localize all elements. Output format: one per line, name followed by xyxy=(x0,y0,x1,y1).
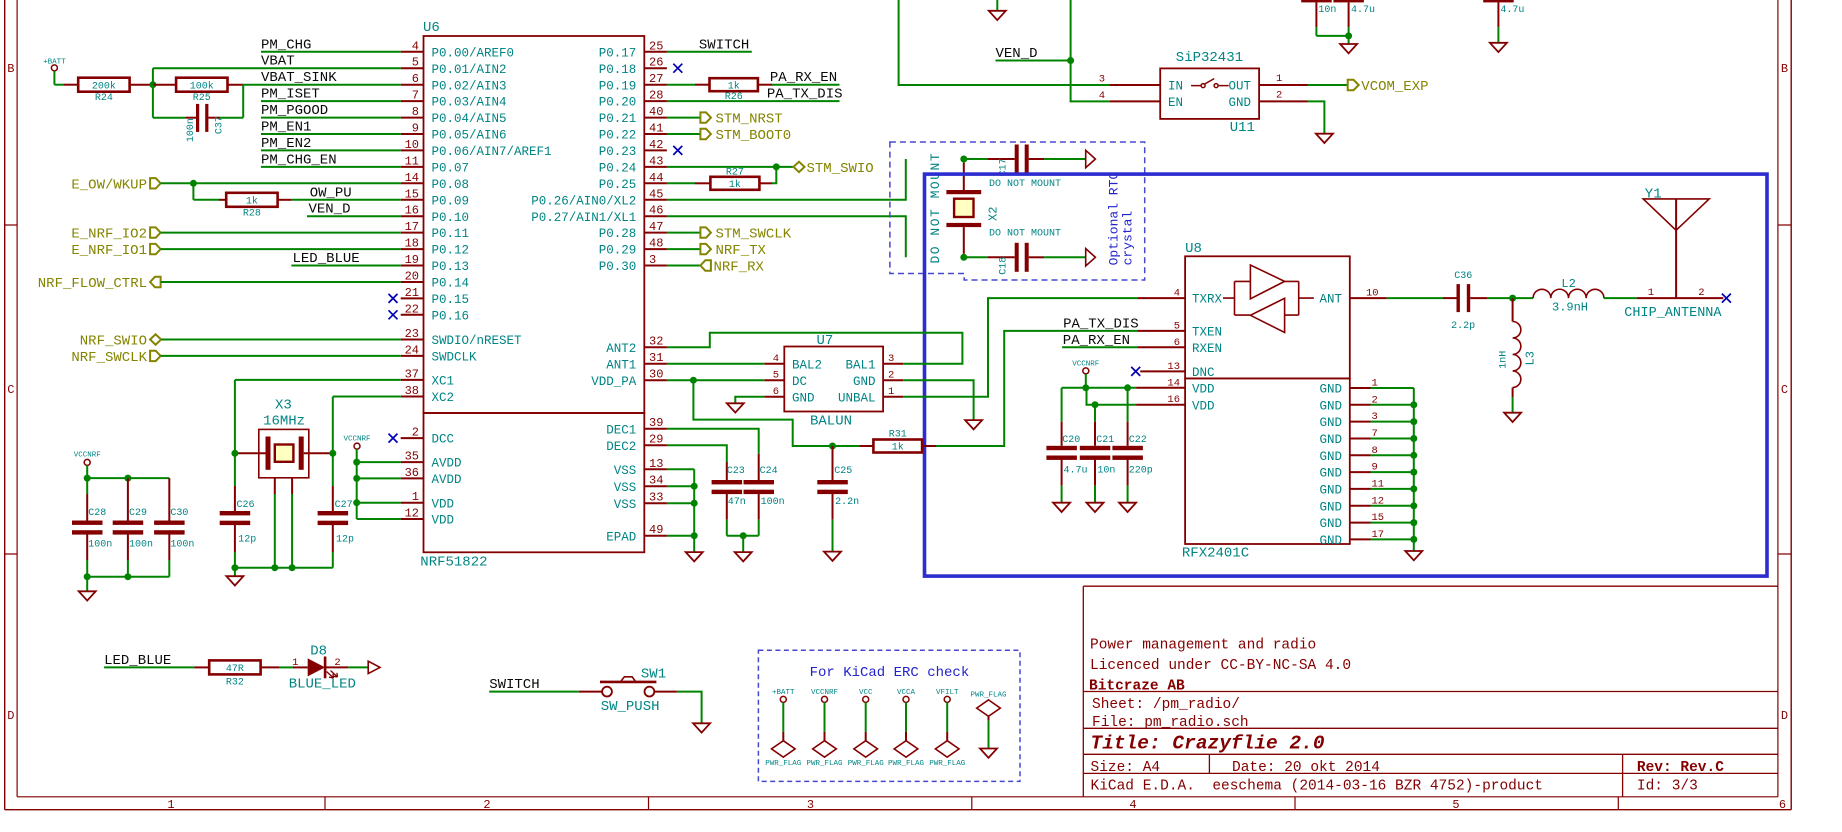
svg-text:SWDIO/nRESET: SWDIO/nRESET xyxy=(432,334,523,348)
svg-text:C29: C29 xyxy=(129,508,147,519)
capacitor C36 2.2p xyxy=(1387,271,1513,332)
svg-text:RXEN: RXEN xyxy=(1192,342,1222,356)
svg-text:3: 3 xyxy=(649,253,656,267)
svg-text:6: 6 xyxy=(1779,798,1786,812)
svg-text:PA_TX_DIS: PA_TX_DIS xyxy=(1063,316,1139,332)
svg-text:VDD_PA: VDD_PA xyxy=(591,375,637,389)
U6 pin 13 VSS xyxy=(614,457,667,478)
svg-text:X2: X2 xyxy=(987,207,1001,221)
junction GND bus xyxy=(1410,469,1417,476)
svg-text:GND: GND xyxy=(1319,450,1342,464)
inductor L2 3.9nH xyxy=(1513,277,1637,315)
svg-text:DEC2: DEC2 xyxy=(606,440,636,454)
svg-text:C22: C22 xyxy=(1129,435,1147,446)
svg-text:1k: 1k xyxy=(728,80,740,92)
ground below 4.7u xyxy=(1490,43,1507,52)
svg-text:P0.08: P0.08 xyxy=(432,178,470,192)
net label PA_TX_DIS wire pin 28 xyxy=(667,86,843,102)
svg-text:12p: 12p xyxy=(238,535,256,546)
svg-text:P0.22: P0.22 xyxy=(599,129,637,143)
svg-text:PM_ISET: PM_ISET xyxy=(261,87,320,103)
U6 pin 27 P0.19 xyxy=(599,72,667,93)
svg-text:7: 7 xyxy=(412,89,419,103)
svg-text:STM_SWIO: STM_SWIO xyxy=(807,161,874,177)
hier label E_NRF_IO2 to pin 17 xyxy=(71,227,400,243)
junction C25/R31 xyxy=(829,443,836,450)
svg-text:8: 8 xyxy=(412,105,419,119)
wire U11 GND to ground xyxy=(1308,101,1325,133)
U6 pin 4 P0.00/AREF0 xyxy=(401,39,514,60)
wire from top to U11 IN xyxy=(899,0,1110,85)
hier label NRF_TX pin 48 xyxy=(667,243,767,259)
junction C23/C24 gnd xyxy=(740,532,747,539)
wire VEN_D to U11 EN xyxy=(1071,0,1110,101)
svg-text:4.7u: 4.7u xyxy=(1351,5,1375,16)
svg-text:2: 2 xyxy=(888,370,894,382)
svg-text:KiCad E.D.A. eeschema (2014-0: KiCad E.D.A. eeschema (2014-03-16 BZR 47… xyxy=(1091,778,1543,794)
wire XC1 to crystal xyxy=(235,380,401,453)
svg-text:R24: R24 xyxy=(95,93,113,104)
svg-text:DO NOT MOUNT: DO NOT MOUNT xyxy=(928,152,943,264)
svg-text:P0.25: P0.25 xyxy=(599,178,637,192)
hier label NRF_FLOW_CTRL to pin 20 xyxy=(38,276,401,292)
svg-text:1nH: 1nH xyxy=(1499,351,1510,369)
junction VSS34 xyxy=(691,483,698,490)
bottom bus C28-C30 xyxy=(87,576,169,578)
svg-text:2: 2 xyxy=(1698,287,1704,299)
svg-text:L2: L2 xyxy=(1561,277,1575,291)
svg-text:100n: 100n xyxy=(761,497,785,508)
svg-text:DO NOT MOUNT: DO NOT MOUNT xyxy=(989,179,1061,190)
svg-text:100n: 100n xyxy=(88,540,112,551)
note blue box radio section xyxy=(925,174,1768,576)
svg-text:P0.06/AIN7/AREF1: P0.06/AIN7/AREF1 xyxy=(432,145,552,159)
svg-text:EPAD: EPAD xyxy=(606,530,636,544)
power symbol VCCNRF with PWR_FLAG xyxy=(806,689,843,768)
svg-text:43: 43 xyxy=(649,154,663,168)
hier label STM_SWIO xyxy=(794,161,874,177)
svg-text:P0.13: P0.13 xyxy=(432,260,470,274)
svg-text:AVDD: AVDD xyxy=(432,457,462,471)
junction C22 top xyxy=(1124,384,1131,391)
ground below C22 xyxy=(1119,503,1136,512)
svg-text:4: 4 xyxy=(412,39,419,53)
svg-text:BALUN: BALUN xyxy=(810,414,852,430)
svg-text:40: 40 xyxy=(649,105,663,119)
power symbol VCCNRF near U6 AVDD xyxy=(343,435,370,519)
power symbol +BATT xyxy=(43,59,66,85)
U8 GND pin 8 xyxy=(1319,445,1413,464)
U6 pin 32 ANT2 xyxy=(606,335,667,356)
svg-text:VEN_D: VEN_D xyxy=(996,46,1038,62)
wire XC2 to crystal xyxy=(333,397,401,454)
power flag PWR_FLAG with ground xyxy=(970,692,1007,758)
svg-text:P0.11: P0.11 xyxy=(432,227,470,241)
U6 pin 29 DEC2 xyxy=(606,433,667,454)
svg-text:R32: R32 xyxy=(226,678,244,689)
power symbol VCCNRF at U8 xyxy=(1072,360,1099,388)
U8 pin 6 RXEN xyxy=(1138,337,1222,356)
IC U6 nRF51822 body xyxy=(420,20,644,571)
svg-text:B: B xyxy=(7,62,14,76)
svg-text:PA_TX_DIS: PA_TX_DIS xyxy=(767,86,843,102)
svg-text:AVDD: AVDD xyxy=(432,473,462,487)
svg-text:31: 31 xyxy=(649,351,663,365)
svg-text:35: 35 xyxy=(405,450,419,464)
svg-text:P0.28: P0.28 xyxy=(599,227,637,241)
top bus C28-C30 xyxy=(87,477,169,479)
svg-text:VSS: VSS xyxy=(614,481,637,495)
svg-text:GND: GND xyxy=(1319,500,1342,514)
title block xyxy=(1083,586,1778,797)
U6 pin 48 P0.29 xyxy=(599,237,667,258)
svg-text:24: 24 xyxy=(405,343,419,357)
svg-text:48: 48 xyxy=(649,237,663,251)
svg-text:Licenced under CC-BY-NC-SA 4.0: Licenced under CC-BY-NC-SA 4.0 xyxy=(1090,658,1351,674)
svg-text:1: 1 xyxy=(412,490,419,504)
svg-text:For KiCad ERC check: For KiCad ERC check xyxy=(810,665,970,681)
svg-text:BLUE_LED: BLUE_LED xyxy=(289,677,356,693)
svg-text:16: 16 xyxy=(1167,394,1180,406)
net label PM_PGOOD wire to pin 8 xyxy=(261,103,401,119)
junction X2 top xyxy=(960,156,967,163)
svg-text:GND: GND xyxy=(1228,96,1251,110)
svg-text:P0.15: P0.15 xyxy=(432,293,470,307)
svg-text:UNBAL: UNBAL xyxy=(838,391,876,405)
U6 pin 46 P0.27/AIN1/XL1 xyxy=(531,204,667,225)
dangling hier arrow after D8 xyxy=(368,661,380,673)
svg-text:D: D xyxy=(1781,709,1788,723)
capacitor C26 12p xyxy=(220,453,257,567)
svg-text:46: 46 xyxy=(649,204,663,218)
svg-text:P0.00/AREF0: P0.00/AREF0 xyxy=(432,46,515,60)
ground below top caps xyxy=(1340,44,1357,53)
svg-text:29: 29 xyxy=(649,433,663,447)
svg-text:GND: GND xyxy=(1319,484,1342,498)
net label VBAT_SINK wire to pin 6 xyxy=(243,70,401,86)
U8 pin 16 VDD xyxy=(1136,394,1214,413)
svg-text:C: C xyxy=(1781,383,1788,397)
svg-text:3.9nH: 3.9nH xyxy=(1552,301,1588,315)
wire R31 to U8 TXEN PA_TX_DIS xyxy=(936,331,1138,446)
ground below VSS bus xyxy=(686,552,703,561)
capacitor C28 100n xyxy=(72,478,112,577)
junction C36/L2/L3 xyxy=(1509,295,1516,302)
svg-text:R25: R25 xyxy=(193,93,211,104)
junction GND bus xyxy=(1410,418,1417,425)
svg-text:BAL1: BAL1 xyxy=(845,358,875,372)
svg-text:U11: U11 xyxy=(1230,120,1255,136)
U8 GND pin 11 xyxy=(1319,478,1413,497)
svg-text:LED_BLUE: LED_BLUE xyxy=(104,653,171,669)
svg-text:4: 4 xyxy=(1129,798,1136,812)
IC U11 SiP32431 load switch xyxy=(1099,50,1308,136)
wire DEC2 to C23 xyxy=(667,445,727,462)
svg-text:18: 18 xyxy=(405,237,419,251)
svg-text:5: 5 xyxy=(412,56,419,70)
wire UNBAL to U8 TXRX xyxy=(903,298,1138,397)
svg-text:P0.16: P0.16 xyxy=(432,309,470,323)
svg-text:6: 6 xyxy=(1174,337,1180,349)
svg-text:9: 9 xyxy=(412,122,419,136)
hier label NRF_RX pin 3 xyxy=(667,260,765,276)
hier label STM_BOOT0 pin 41 xyxy=(667,128,791,144)
svg-text:RFX2401C: RFX2401C xyxy=(1182,546,1249,562)
svg-text:VDD: VDD xyxy=(432,514,455,528)
svg-text:VDD: VDD xyxy=(1192,382,1215,396)
ground below C21 xyxy=(1087,503,1104,512)
svg-text:Title: Crazyflie 2.0: Title: Crazyflie 2.0 xyxy=(1091,732,1325,754)
svg-text:C: C xyxy=(7,383,14,397)
svg-text:SWDCLK: SWDCLK xyxy=(432,351,478,365)
svg-text:22: 22 xyxy=(405,302,419,316)
junction C29 top xyxy=(124,475,131,482)
capacitor C27 12p xyxy=(318,453,354,567)
U6 pin 20 P0.14 xyxy=(401,270,469,291)
svg-text:P0.29: P0.29 xyxy=(599,244,637,258)
junction GND bus xyxy=(1410,519,1417,526)
U6 pin 12 VDD xyxy=(401,507,454,528)
svg-text:Bitcraze AB: Bitcraze AB xyxy=(1089,679,1185,695)
junction GND bus xyxy=(1410,502,1417,509)
U6 pin 41 P0.22 xyxy=(599,122,667,143)
svg-text:PA_RX_EN: PA_RX_EN xyxy=(1063,333,1130,349)
U8 pin 5 TXEN xyxy=(1138,320,1222,339)
wire pin 45 to RTC junction xyxy=(667,159,906,200)
power symbol VCCNRF for C28-C30 xyxy=(74,452,101,479)
svg-text:3: 3 xyxy=(1099,74,1105,86)
capacitor C24 100n xyxy=(744,454,785,536)
svg-text:DEC1: DEC1 xyxy=(606,423,636,437)
svg-text:P0.17: P0.17 xyxy=(599,46,637,60)
push button SW1 SW_PUSH xyxy=(579,667,677,715)
junction E_OW/R28 xyxy=(190,180,197,187)
U6 pin 34 VSS xyxy=(614,474,667,495)
power symbol VCCA with PWR_FLAG xyxy=(888,689,925,768)
resistor R28 1k to OW_PU xyxy=(193,183,291,219)
net label PM_CHG with wire to U6 pin 4 xyxy=(261,37,401,53)
svg-text:1: 1 xyxy=(888,386,894,398)
svg-text:C24: C24 xyxy=(760,466,778,477)
svg-text:P0.12: P0.12 xyxy=(432,244,470,258)
svg-text:NRF51822: NRF51822 xyxy=(420,555,487,571)
note dashed box Optional RTC crystal xyxy=(890,142,1145,280)
svg-text:25: 25 xyxy=(649,39,663,53)
wire VDD_PA to DC xyxy=(667,379,764,381)
svg-text:GND: GND xyxy=(853,375,876,389)
net label PM_EN2 wire to pin 10 xyxy=(261,136,401,152)
net label SWITCH at SW1 xyxy=(489,677,579,693)
svg-text:NRF_SWCLK: NRF_SWCLK xyxy=(71,350,147,366)
U6 pin 40 P0.21 xyxy=(599,105,667,126)
svg-text:C18: C18 xyxy=(999,257,1010,275)
junction crystal right xyxy=(329,450,336,457)
U8 pin 4 TXRX xyxy=(1138,288,1223,307)
capacitor C23 47n xyxy=(712,462,746,536)
svg-text:12p: 12p xyxy=(336,535,354,546)
svg-text:12: 12 xyxy=(405,507,419,521)
U6 pin 42 P0.23 xyxy=(599,138,683,159)
svg-text:27: 27 xyxy=(649,72,663,86)
capacitor 10n top xyxy=(1301,0,1336,36)
svg-text:R28: R28 xyxy=(243,209,261,220)
antenna Y1 chip antenna xyxy=(1624,186,1723,320)
svg-text:E_NRF_IO2: E_NRF_IO2 xyxy=(71,227,147,243)
svg-text:C20: C20 xyxy=(1062,435,1080,446)
U6 pin 31 ANT1 xyxy=(606,351,667,372)
svg-text:P0.21: P0.21 xyxy=(599,112,637,126)
svg-text:P0.26/AIN0/XL2: P0.26/AIN0/XL2 xyxy=(531,194,636,208)
svg-text:NRF_SWIO: NRF_SWIO xyxy=(80,334,147,350)
U6 pin 25 P0.17 xyxy=(599,39,667,60)
svg-text:1: 1 xyxy=(167,798,174,812)
junction at R24/R25/VBAT xyxy=(149,81,156,88)
svg-text:14: 14 xyxy=(1167,377,1180,389)
hier label E_OW/WKUP to pin 14 xyxy=(71,177,400,193)
U8 pin 14 VDD xyxy=(1136,377,1214,396)
svg-text:TXEN: TXEN xyxy=(1192,326,1222,340)
net label LED_BLUE wire to pin 19 xyxy=(291,251,400,267)
svg-text:100n: 100n xyxy=(170,540,194,551)
junction caps top xyxy=(1345,32,1352,39)
junction GND bus xyxy=(1410,452,1417,459)
svg-text:SWITCH: SWITCH xyxy=(489,677,539,693)
svg-text:L3: L3 xyxy=(1524,351,1538,365)
svg-text:VDD: VDD xyxy=(432,497,455,511)
U6 pin 7 P0.03/AIN4 xyxy=(401,89,507,110)
svg-text:PWR_FLAG: PWR_FLAG xyxy=(848,760,885,768)
capacitor C25 2.2n xyxy=(817,446,859,552)
power symbol VCC with PWR_FLAG xyxy=(848,689,885,768)
svg-text:10n: 10n xyxy=(1097,465,1115,476)
hier label STM_SWCLK pin 47 xyxy=(667,227,792,243)
U8 GND pin 17 xyxy=(1319,529,1413,548)
junction C28 bottom xyxy=(84,573,91,580)
junction GND bus xyxy=(1410,435,1417,442)
U6 pin 3 P0.30 xyxy=(599,253,667,274)
svg-text:1k: 1k xyxy=(729,179,741,191)
svg-text:STM_SWCLK: STM_SWCLK xyxy=(716,227,792,243)
svg-text:2: 2 xyxy=(1276,89,1282,101)
svg-text:10: 10 xyxy=(405,138,419,152)
U8 GND pin 2 xyxy=(1319,394,1413,413)
net label VBAT wire to pin 5 xyxy=(153,54,401,70)
VSS bus xyxy=(667,469,694,552)
wire VBAT riser xyxy=(152,68,154,85)
svg-text:P0.01/AIN2: P0.01/AIN2 xyxy=(432,63,507,77)
net label OW_PU wire to pin 15 xyxy=(292,185,401,201)
resistor R27 1k xyxy=(667,167,776,191)
svg-text:GND: GND xyxy=(1319,534,1342,548)
resistor R31 1k xyxy=(833,430,937,454)
svg-text:Size: A4: Size: A4 xyxy=(1091,760,1161,776)
junction VDD1 xyxy=(353,499,360,506)
U8 pin 10 ANT xyxy=(1319,288,1386,307)
svg-text:17: 17 xyxy=(405,220,419,234)
U6 pin 18 P0.12 xyxy=(401,237,469,258)
svg-text:XC2: XC2 xyxy=(432,391,455,405)
svg-text:P0.24: P0.24 xyxy=(599,162,637,176)
svg-text:23: 23 xyxy=(405,327,419,341)
svg-text:PWR_FLAG: PWR_FLAG xyxy=(970,692,1007,700)
svg-text:P0.04/AIN5: P0.04/AIN5 xyxy=(432,112,507,126)
svg-text:36: 36 xyxy=(405,466,419,480)
ground below L3 xyxy=(1504,413,1521,422)
svg-text:1k: 1k xyxy=(246,195,258,207)
junction gnd bus 1 xyxy=(231,564,238,571)
svg-text:45: 45 xyxy=(649,187,663,201)
svg-text:VBAT_SINK: VBAT_SINK xyxy=(261,70,337,86)
svg-text:C25: C25 xyxy=(834,466,852,477)
svg-text:20: 20 xyxy=(405,270,419,284)
U6 pin 10 P0.06/AIN7/AREF1 xyxy=(401,138,552,159)
svg-text:19: 19 xyxy=(405,253,419,267)
svg-text:VCCNRF: VCCNRF xyxy=(343,435,370,443)
resistor R26 1k PA_RX_EN xyxy=(667,70,840,103)
ground below U8 GND bus xyxy=(1405,551,1422,560)
svg-text:Date: 20 okt 2014: Date: 20 okt 2014 xyxy=(1232,760,1380,776)
svg-text:GND: GND xyxy=(1319,416,1342,430)
svg-text:2.2p: 2.2p xyxy=(1451,321,1475,332)
svg-text:C36: C36 xyxy=(1454,271,1472,282)
svg-text:Optional RTC: Optional RTC xyxy=(1107,172,1122,266)
capacitor 4.7u top xyxy=(1333,0,1375,27)
power symbol +BATT with PWR_FLAG xyxy=(765,689,802,768)
svg-text:OW_PU: OW_PU xyxy=(310,185,352,201)
svg-text:200k: 200k xyxy=(92,80,116,92)
svg-text:2: 2 xyxy=(412,426,419,440)
junction GND bus xyxy=(1410,536,1417,543)
svg-text:5: 5 xyxy=(773,370,779,382)
svg-text:PM_CHG: PM_CHG xyxy=(261,37,311,53)
svg-text:GND: GND xyxy=(792,391,815,405)
svg-text:ANT: ANT xyxy=(1319,293,1342,307)
svg-text:PA_RX_EN: PA_RX_EN xyxy=(770,70,837,86)
svg-text:14: 14 xyxy=(405,171,419,185)
ground symbol top xyxy=(989,0,1006,20)
svg-text:C30: C30 xyxy=(170,508,188,519)
svg-text:NRF_TX: NRF_TX xyxy=(716,243,767,259)
wire VDD_PA to R31 xyxy=(693,380,832,446)
wire ANT1 to BAL2 xyxy=(667,363,764,365)
svg-text:XC1: XC1 xyxy=(432,375,455,389)
U6 pin 26 P0.18 xyxy=(599,56,683,77)
wire U7 GND6 to ground xyxy=(735,397,764,404)
svg-text:GND: GND xyxy=(1319,433,1342,447)
inductor L3 1nH xyxy=(1499,298,1538,413)
svg-text:PM_EN2: PM_EN2 xyxy=(261,136,311,152)
junction C28 top xyxy=(84,475,91,482)
U6 pin 49 EPAD xyxy=(606,523,667,544)
U6 pin 47 P0.28 xyxy=(599,220,667,241)
junction X2 bottom xyxy=(960,254,967,261)
junction gnd bus 3 xyxy=(289,564,296,571)
capacitor C21 10n xyxy=(1080,405,1116,503)
U6 pin 2 DCC xyxy=(389,426,455,447)
svg-text:38: 38 xyxy=(405,384,419,398)
svg-text:GND: GND xyxy=(1319,467,1342,481)
svg-text:P0.02/AIN3: P0.02/AIN3 xyxy=(432,79,507,93)
capacitor C37 100n across R25 xyxy=(153,85,243,142)
svg-text:4: 4 xyxy=(1099,90,1105,102)
GND bus vertical at U8 xyxy=(1413,388,1415,551)
capacitor C22 220p xyxy=(1112,388,1152,503)
svg-text:32: 32 xyxy=(649,335,663,349)
svg-text:21: 21 xyxy=(405,286,419,300)
svg-text:100n: 100n xyxy=(129,540,153,551)
ground below C23/C24 xyxy=(735,536,752,562)
svg-text:41: 41 xyxy=(649,122,663,136)
